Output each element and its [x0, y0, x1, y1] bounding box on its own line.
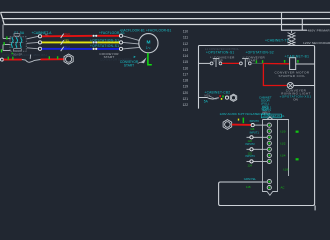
label opstation XS1 — [280, 95, 312, 99]
wire input row5 — [247, 148, 268, 150]
svg-text:117: 117 — [183, 72, 189, 76]
input hexagon H1 — [230, 94, 236, 101]
svg-text:YEL: YEL — [64, 38, 70, 42]
node feeder source — [0, 58, 3, 61]
svg-text:110: 110 — [183, 30, 189, 34]
node B terminal — [38, 47, 41, 50]
tick green n — [243, 118, 245, 124]
svg-text:+OPSTATION-S1: +OPSTATION-S1 — [90, 44, 119, 48]
svg-text:INPUT3: INPUT3 — [246, 154, 256, 158]
label IO right 1 — [280, 129, 286, 133]
rung1 wire red to coil — [263, 63, 290, 65]
svg-text:➤: ➤ — [133, 55, 136, 59]
svg-text:M: M — [147, 39, 151, 45]
wire phase yellow — [42, 41, 120, 43]
PLC module outline — [263, 117, 289, 196]
label IO right 5 — [281, 186, 285, 190]
breaker CB1 dashed enclosure — [10, 37, 26, 51]
label input tag gray — [262, 110, 270, 114]
rung2 wire — [199, 98, 219, 100]
terminal 3 — [267, 135, 271, 139]
terminal AC N — [267, 186, 271, 190]
wire feeder drop — [3, 25, 11, 51]
label on — [293, 98, 298, 102]
label dim starter — [100, 58, 133, 62]
motor M1 phase mark — [146, 46, 151, 50]
svg-text:ON: ON — [293, 98, 298, 102]
wire feeder red 2 — [41, 58, 65, 60]
tick green f — [49, 56, 50, 59]
label input left cyan 2 — [250, 131, 260, 135]
breaker CB1 rating label — [13, 53, 22, 57]
label CB2 rating — [204, 100, 209, 104]
transformer T1 secondary coil — [288, 39, 296, 45]
terminal 4 — [267, 141, 271, 145]
svg-text:118: 118 — [183, 79, 189, 83]
label CB2 small — [205, 94, 211, 98]
label FACFLOOR-D1 — [99, 31, 125, 35]
transformer T1 primary coil — [288, 30, 296, 39]
tick green l — [222, 95, 224, 97]
tick green i — [284, 60, 285, 63]
wire number tick green c — [1, 49, 2, 52]
stub to node B — [27, 48, 38, 49]
tick green module right a — [296, 131, 299, 133]
leader arrow conveyor start — [141, 57, 147, 63]
breaker CB1 bottom block — [14, 48, 22, 51]
ladder left rail — [199, 46, 200, 109]
svg-text:119: 119 — [183, 85, 189, 89]
node input terminal — [251, 124, 254, 127]
leader CB2 — [209, 96, 216, 100]
wire bus L2 — [1, 13, 330, 18]
svg-text:-F1 5A: -F1 5A — [13, 31, 25, 35]
svg-text:116: 116 — [183, 66, 189, 70]
svg-text:I:1/4: I:1/4 — [280, 153, 286, 157]
svg-text:INPUT0: INPUT0 — [250, 119, 260, 123]
wire motor ground green — [148, 53, 152, 65]
label input left green 2 — [248, 139, 253, 143]
tick green h — [256, 60, 257, 63]
wire feeder red 1 — [4, 59, 22, 61]
label cabinet T1 — [265, 39, 289, 43]
terminal 5 — [267, 147, 271, 151]
wire input red — [232, 124, 251, 126]
breaker CB2 node — [225, 96, 228, 99]
svg-text:114: 114 — [183, 54, 189, 58]
label opstation S2 — [246, 51, 274, 55]
label IO right 3 — [280, 153, 286, 157]
svg-text:+CABINET-A: +CABINET-A — [32, 31, 53, 35]
tick green g — [57, 56, 58, 59]
rung1 wire left — [199, 62, 211, 64]
wire number tick green b — [3, 42, 4, 45]
label opstation S1 — [206, 51, 234, 55]
svg-text:124: 124 — [248, 163, 253, 167]
tick yellow o — [238, 119, 239, 121]
lamp XS1 — [287, 82, 293, 88]
wire bus L1 — [1, 11, 330, 14]
svg-text:118: 118 — [250, 127, 255, 131]
label conveyer start2 — [243, 55, 266, 62]
label acin cyan — [244, 177, 257, 181]
wire secondary hot — [199, 45, 314, 47]
svg-text:122: 122 — [183, 103, 189, 107]
wire bus L3 — [3, 20, 330, 25]
label input left cyan 4 — [246, 154, 256, 158]
tick green under box — [12, 53, 13, 55]
svg-text:STOP: STOP — [213, 58, 223, 62]
terminal 1 — [267, 123, 271, 127]
label acin green — [246, 185, 251, 189]
motor M2 letter — [67, 57, 71, 62]
svg-text:112: 112 — [183, 42, 189, 46]
inline connector red — [93, 35, 98, 37]
breaker CB1 poles — [12, 39, 22, 47]
tick yellow m — [221, 98, 223, 100]
svg-text:+OPSTATION-S1: +OPSTATION-S1 — [90, 38, 119, 42]
terminal 2 — [267, 129, 271, 133]
label 120V secondary — [303, 41, 330, 45]
svg-text:GRN/YEL: GRN/YEL — [244, 177, 257, 181]
label cabinet B1 — [285, 54, 310, 58]
cable marker slashes — [61, 34, 64, 52]
breaker F1 label — [13, 31, 25, 35]
stub to node Y — [27, 41, 38, 44]
label PLC module header — [220, 112, 271, 116]
tick red k — [219, 95, 221, 97]
tick green e — [12, 57, 13, 60]
svg-text:CONVEYOR FEEDER 480V 3PH: CONVEYOR FEEDER 480V 3PH — [2, 53, 47, 57]
svg-text:+FACFLOOR-B1 +FACFLOOR-B1: +FACFLOOR-B1 +FACFLOOR-B1 — [120, 29, 172, 33]
label starter coil — [274, 71, 309, 78]
wire red branch vertical — [263, 63, 287, 86]
svg-text:118: 118 — [246, 185, 251, 189]
label OPSTATION row2 — [90, 44, 119, 48]
label input left green 3 — [248, 151, 253, 155]
label conveyer stop — [210, 55, 235, 62]
lamp wire to rail — [293, 85, 314, 87]
label BLU — [64, 45, 70, 49]
svg-text:1∿: 1∿ — [146, 46, 151, 50]
svg-text:START: START — [124, 63, 134, 67]
svg-text:120V SECONDARY: 120V SECONDARY — [303, 41, 330, 45]
label running light — [281, 88, 311, 95]
wire input row3 — [247, 136, 268, 138]
stub to node R — [27, 36, 38, 39]
svg-text:+CABINET-PLC1: +CABINET-PLC1 — [262, 114, 285, 118]
motor M2 hexagon — [64, 54, 73, 64]
node end terminal yellow — [119, 41, 122, 44]
svg-text:111: 111 — [183, 36, 188, 40]
label YEL — [64, 38, 70, 42]
svg-text:115: 115 — [183, 60, 189, 64]
svg-text:120: 120 — [183, 91, 189, 95]
rail end tail — [314, 206, 316, 211]
wire input gray — [254, 124, 267, 126]
label 480V primary — [308, 29, 330, 33]
terminal AC L — [267, 180, 271, 184]
label RED — [64, 32, 71, 36]
leader line — [138, 62, 142, 64]
label cabinet CB2 — [205, 90, 231, 94]
svg-text:+CABINET-T1: +CABINET-T1 — [265, 39, 289, 43]
wire input row7 — [247, 160, 268, 162]
coil wire to rail — [296, 63, 315, 65]
label conveyor start cyan — [120, 60, 139, 67]
marker cyan arrow — [133, 55, 136, 59]
svg-text:+OPSTATION-S1: +OPSTATION-S1 — [206, 51, 234, 55]
motor leads — [123, 36, 140, 49]
pushbutton S2 — [240, 59, 252, 67]
label IO right 4 — [283, 167, 289, 171]
svg-text:+OPSTATION-S2: +OPSTATION-S2 — [246, 51, 274, 55]
label input left green 4 — [248, 163, 253, 167]
motor M1 letter — [147, 39, 151, 45]
svg-text:RED: RED — [64, 32, 71, 36]
label input left cyan 1 — [250, 119, 260, 123]
label input left cyan 3 — [246, 142, 256, 146]
coil B1 box — [290, 58, 296, 70]
hexagon H2 letter — [226, 122, 230, 127]
wire flex conduit — [22, 55, 41, 63]
label cabinet PLC1 box — [261, 114, 285, 118]
node Y terminal — [38, 41, 41, 44]
svg-text:INPUT2: INPUT2 — [246, 142, 256, 146]
wire phase red — [42, 35, 120, 38]
node R terminal — [38, 35, 41, 38]
terminal 7 — [267, 159, 271, 163]
label input left green 1 — [250, 127, 255, 131]
breaker CB1 top block — [14, 34, 20, 37]
motor M1 circle — [139, 34, 158, 53]
breaker CB1 pole terminals — [12, 37, 22, 48]
hexagon H1 letter — [232, 96, 235, 100]
svg-text:I:1/6: I:1/6 — [283, 167, 289, 171]
rung1 wire red mid — [222, 62, 239, 64]
tick green d — [8, 57, 9, 60]
ladder right rail — [219, 46, 315, 206]
label cabinet door column — [259, 95, 272, 111]
wire number tick green a — [6, 36, 7, 39]
ladder rung numbers — [183, 30, 189, 107]
svg-text:CONVEYOR STARTER: CONVEYOR STARTER — [100, 58, 133, 62]
svg-text:STARTER COIL: STARTER COIL — [279, 74, 306, 78]
svg-text:INPUT1: INPUT1 — [250, 131, 260, 135]
svg-text:121: 121 — [183, 97, 189, 101]
node end terminal red — [119, 34, 122, 37]
pushbutton S1 — [210, 59, 222, 67]
transformer primary drop 1 — [282, 12, 308, 30]
tick green j — [297, 60, 298, 63]
svg-text:+CABINET-B1: +CABINET-B1 — [285, 54, 310, 58]
breaker CB1 tie bar — [11, 41, 24, 43]
input hexagon H2 — [223, 120, 232, 130]
terminal 6 — [267, 153, 271, 157]
label dim feeder — [2, 53, 47, 57]
inline connector blue — [93, 48, 98, 50]
svg-text:I:1/0: I:1/0 — [280, 129, 286, 133]
rung1 wire dim right — [251, 62, 262, 64]
tick green module right b — [296, 158, 299, 160]
label IO right 2 — [280, 141, 286, 145]
label OPSTATION row1 — [90, 38, 119, 42]
inline connector yellow — [93, 41, 98, 43]
svg-text:M10: M10 — [205, 94, 211, 98]
cabinet A label — [32, 31, 53, 37]
label conveyor start gray — [99, 52, 119, 59]
label FACFLOOR-B1 pair — [120, 29, 172, 33]
svg-text:I:1/2: I:1/2 — [280, 141, 286, 145]
tick green rung1 — [262, 60, 263, 63]
svg-text:BLU: BLU — [64, 45, 70, 49]
label slot tag — [262, 105, 272, 112]
label dim rung1 — [205, 47, 239, 51]
svg-text:480V PRIMARY: 480V PRIMARY — [308, 29, 330, 33]
svg-text:113: 113 — [183, 48, 189, 52]
node end terminal blue — [119, 47, 122, 50]
wire phase blue — [42, 48, 120, 50]
svg-text:AC: AC — [281, 186, 285, 190]
